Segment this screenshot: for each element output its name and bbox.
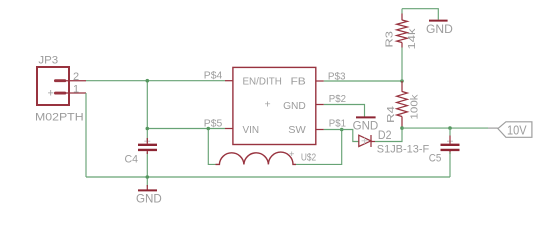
svg-text:VIN: VIN bbox=[243, 124, 260, 136]
svg-text:R4: R4 bbox=[385, 106, 397, 123]
junction dot C4 top bbox=[146, 79, 150, 83]
svg-text:10V: 10V bbox=[507, 122, 527, 137]
svg-text:U$2: U$2 bbox=[301, 152, 316, 164]
polarity mark D2 bbox=[362, 138, 368, 144]
junction dot inductor left bbox=[207, 127, 211, 131]
svg-text:P$1: P$1 bbox=[329, 118, 346, 130]
wire FB net P$3 bbox=[324, 80, 402, 82]
wire P$5 horizontal bbox=[147, 128, 225, 130]
junction dot rail C4 bbox=[146, 175, 150, 179]
svg-text:GND: GND bbox=[353, 120, 379, 132]
svg-text:14k: 14k bbox=[406, 28, 418, 50]
svg-text:JP3: JP3 bbox=[38, 55, 58, 67]
svg-text:C5: C5 bbox=[429, 153, 442, 165]
svg-text:GND: GND bbox=[136, 193, 162, 205]
svg-text:S1JB-13-F: S1JB-13-F bbox=[377, 143, 430, 155]
svg-text:D2: D2 bbox=[378, 130, 392, 142]
ground top right bbox=[426, 21, 453, 36]
svg-text:P$4: P$4 bbox=[204, 70, 223, 82]
wire bottom rail bbox=[86, 176, 450, 178]
ground mid (P$2) bbox=[353, 117, 379, 132]
svg-text:1: 1 bbox=[73, 84, 79, 96]
svg-text:2: 2 bbox=[73, 71, 79, 83]
svg-text:P$5: P$5 bbox=[204, 117, 223, 129]
svg-text:GND: GND bbox=[426, 24, 453, 36]
wire JP3 pin2 to EN/DITH bbox=[86, 80, 225, 82]
wire output to flag bbox=[402, 127, 488, 129]
ground below C4 bbox=[136, 185, 162, 205]
wire R3 top to GND bbox=[402, 9, 438, 20]
polarity mark C5 bbox=[447, 138, 453, 144]
junction dot inductor right bbox=[340, 128, 344, 132]
IC U1 box bbox=[225, 67, 324, 144]
svg-text:P$2: P$2 bbox=[329, 93, 346, 105]
svg-text:FB: FB bbox=[291, 75, 306, 87]
svg-text:+: + bbox=[48, 87, 54, 99]
resistor R3 bbox=[397, 9, 408, 81]
connector JP3 bbox=[37, 67, 86, 105]
junction dot P$5 bbox=[146, 127, 150, 131]
resistor R4 bbox=[397, 81, 408, 128]
inductor U$2 bbox=[208, 129, 341, 165]
polarity mark C4 bbox=[144, 138, 150, 144]
supply flag 10V bbox=[488, 122, 532, 138]
wire SW to diode bbox=[324, 130, 359, 142]
svg-text:100k: 100k bbox=[409, 94, 421, 120]
wire P$2 to ground bbox=[324, 105, 365, 117]
svg-text:EN/DITH: EN/DITH bbox=[243, 75, 282, 87]
capacitor C4 bbox=[138, 138, 157, 154]
wire JP3 pin1 down bbox=[85, 93, 87, 177]
svg-text:GND: GND bbox=[283, 100, 306, 112]
svg-text:+: + bbox=[289, 149, 294, 159]
capacitor C5 bbox=[441, 128, 460, 177]
junction dot output R4 bbox=[400, 126, 404, 130]
svg-text:+: + bbox=[265, 99, 271, 111]
diode D2 bbox=[359, 135, 375, 147]
junction dot C5 top bbox=[448, 126, 452, 130]
wire diode cathode up to output bbox=[375, 128, 402, 141]
svg-text:SW: SW bbox=[288, 124, 306, 136]
svg-text:C4: C4 bbox=[125, 153, 139, 165]
wire C4 bottom to GND bbox=[146, 152, 148, 187]
svg-text:M02PTH: M02PTH bbox=[35, 112, 84, 124]
junction dot FB divider bbox=[400, 79, 404, 83]
svg-text:R3: R3 bbox=[384, 31, 396, 48]
wire C4 branch vertical bbox=[146, 81, 148, 141]
